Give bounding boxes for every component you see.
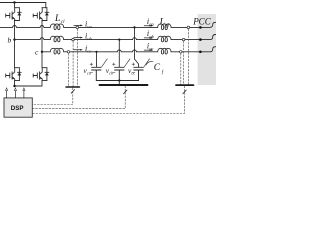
dashed sensor line ic bbox=[68, 53, 70, 86]
capacitor Cf phase b (v_cb) bbox=[115, 67, 124, 80]
gate signal arrow 1 bbox=[6, 88, 8, 98]
IGBT Q3 (lower, phase b) bbox=[15, 67, 20, 69]
svg-text:L: L bbox=[54, 14, 60, 24]
node c junction dot bbox=[41, 51, 43, 53]
DSP box bbox=[4, 98, 32, 117]
wire neutral to bus bar bbox=[118, 81, 120, 85]
svg-text:cl: cl bbox=[61, 20, 65, 25]
sensor circle icc bbox=[67, 51, 70, 54]
dashed sensor line PCC c bbox=[180, 53, 182, 84]
diode D3 bbox=[18, 68, 22, 81]
svg-text:cc: cc bbox=[87, 48, 91, 53]
phase b line bbox=[15, 35, 216, 42]
node PCC a bbox=[199, 26, 202, 29]
node PCC b bbox=[199, 38, 202, 41]
node cap tap a bbox=[133, 26, 135, 28]
dashed bundle stem to DSP (ic) bbox=[32, 88, 73, 105]
PCC grid shaded band bbox=[198, 14, 216, 85]
wire capacitor neutral bbox=[96, 80, 138, 82]
svg-text:c: c bbox=[35, 48, 39, 57]
junction dot top rail leg b bbox=[13, 1, 15, 3]
svg-text:L: L bbox=[159, 17, 165, 27]
svg-text:b: b bbox=[8, 35, 12, 44]
svg-text:PCC: PCC bbox=[192, 16, 212, 26]
diagonal mark cap2 bbox=[124, 59, 130, 67]
sensor circle igc bbox=[180, 51, 183, 54]
diode D1 bbox=[18, 8, 22, 21]
node cap tap b bbox=[118, 39, 120, 41]
dashed sensor line ia bbox=[76, 29, 78, 86]
arrow i_gc bbox=[144, 49, 153, 51]
arrow i_cb bbox=[74, 37, 83, 39]
DC bottom rail bbox=[15, 81, 43, 86]
dashed sensor line PCC a bbox=[187, 29, 189, 84]
wire top link leg b bbox=[15, 3, 20, 8]
wire bottom link leg c upper bbox=[42, 20, 47, 22]
phase a line with hops, Lcl coil, Lgl coil, PCC bbox=[0, 22, 216, 29]
sensor circle icb bbox=[72, 38, 75, 41]
wire leg b vertical bbox=[14, 21, 16, 68]
diagonal mark cap3 bbox=[144, 59, 150, 67]
IGBT Q4 (lower, phase c) bbox=[42, 67, 47, 69]
wire cap branch c bbox=[96, 52, 98, 67]
capacitor Cf phase a (v_cc) bbox=[134, 67, 143, 80]
svg-text:gc: gc bbox=[149, 46, 153, 51]
wire bottom link leg b upper bbox=[15, 20, 20, 22]
node cap tap c bbox=[95, 51, 97, 53]
wire top link leg c bbox=[42, 7, 47, 9]
sensor circle igb bbox=[182, 38, 185, 41]
phase c line bbox=[42, 47, 216, 54]
node bottom rail dot bbox=[13, 85, 15, 87]
svg-text:gl: gl bbox=[166, 23, 171, 28]
slash mark ic bundle bbox=[71, 90, 74, 94]
IGBT Q2 (upper, phase c) bbox=[33, 8, 42, 21]
sensor circle iga bbox=[187, 26, 190, 29]
bundle bar current sensors bbox=[66, 86, 79, 88]
arrow i_ga bbox=[144, 25, 153, 27]
dashed sensor line PCC b bbox=[183, 41, 185, 84]
gate signal arrow 2 bbox=[14, 88, 16, 98]
wire leg c vertical bbox=[41, 21, 43, 68]
plus minus cap2 bbox=[113, 63, 116, 66]
IGBT Q1 (upper, phase b) bbox=[6, 8, 15, 21]
DC top rail bbox=[0, 3, 46, 8]
svg-text:C: C bbox=[154, 63, 161, 73]
node neutral junction bbox=[118, 79, 120, 81]
bundle bar PCC sensors bbox=[176, 84, 194, 86]
arrow i_ca bbox=[74, 24, 83, 26]
plus minus cap1 bbox=[90, 63, 93, 66]
wire cap branch a bbox=[135, 27, 139, 66]
diode D2 bbox=[45, 8, 49, 21]
plus minus cap3 bbox=[132, 63, 135, 66]
dashed bundle stem to DSP (PCC) bbox=[32, 86, 184, 114]
svg-text:ca: ca bbox=[87, 24, 92, 29]
gate signal arrow 3 bbox=[23, 88, 25, 98]
svg-text:f: f bbox=[162, 71, 164, 76]
dashed sensor line ib bbox=[72, 41, 74, 86]
wire cap branch b bbox=[118, 40, 120, 67]
svg-text:cb: cb bbox=[87, 36, 92, 41]
wire bottom link leg b lower bbox=[15, 81, 20, 86]
arrow i_cc bbox=[74, 49, 83, 51]
arrow i_gb bbox=[144, 37, 153, 39]
sensor circle ica bbox=[76, 26, 79, 29]
capacitor Cf phase c (v_ca) bbox=[92, 67, 101, 80]
bus bar capacitor bank bbox=[100, 84, 148, 86]
diode D4 bbox=[45, 68, 49, 81]
slash mark PCC bundle bbox=[183, 90, 186, 94]
wire bottom link leg c lower bbox=[42, 80, 47, 82]
dashed bundle stem to DSP (vc) bbox=[32, 86, 125, 109]
node b junction dot bbox=[13, 38, 15, 40]
svg-text:ga: ga bbox=[149, 22, 154, 27]
node PCC c bbox=[199, 51, 202, 54]
svg-text:gb: gb bbox=[149, 34, 154, 39]
diagonal mark cap1 bbox=[102, 59, 108, 67]
svg-text:DSP: DSP bbox=[11, 105, 24, 112]
slash mark vc bundle bbox=[124, 90, 127, 94]
